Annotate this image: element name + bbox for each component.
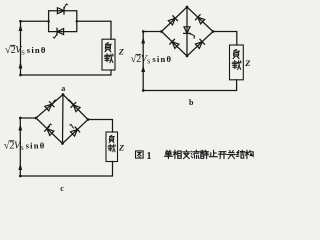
diode D1 (top-left) <box>168 16 177 25</box>
svg-text:Z: Z <box>118 143 124 153</box>
source arrow upper c <box>18 124 22 131</box>
svg-text:sinθ: sinθ <box>26 140 46 150</box>
junction dot b bridge right <box>212 30 215 33</box>
load box c <box>106 132 118 162</box>
load box a <box>102 39 115 70</box>
wire: bottom c <box>20 162 112 177</box>
wire: bridge center vertical c <box>62 95 65 144</box>
junction dot c bridge right <box>87 118 90 121</box>
thyristor V5 (bottom-left) <box>45 124 54 136</box>
diode D2 (top-right) <box>196 15 205 24</box>
thyristor V4 (top-right) <box>68 100 80 112</box>
wire: top lead a <box>21 20 49 22</box>
source arrow lower a <box>19 62 23 69</box>
junction dot b left <box>142 30 145 33</box>
load text 负 a <box>105 43 111 52</box>
source arrow upper a <box>19 24 23 31</box>
junction dot b bridge top <box>186 6 189 9</box>
junction dot b bottom-left <box>142 89 145 92</box>
load box b <box>230 45 244 80</box>
junction dot b bridge bottom <box>186 55 189 58</box>
bridge diamond b <box>162 7 214 56</box>
caption 单相交流静止开关结构 <box>164 150 253 158</box>
thyristor V (bridge center, pointing down) <box>184 27 195 38</box>
wire: bridge center vertical b <box>186 7 188 56</box>
svg-text:a: a <box>61 84 65 93</box>
wire: right lead c <box>88 120 113 133</box>
wire: left vertical c <box>19 118 21 176</box>
source label a <box>5 44 47 57</box>
wire: bottom a <box>21 70 112 75</box>
junction dot a box-right <box>76 20 79 23</box>
source arrow upper b <box>141 37 145 44</box>
junction dot a box-left <box>47 20 50 23</box>
svg-text:sinθ: sinθ <box>27 45 47 55</box>
wire: bottom b <box>143 80 236 91</box>
thyristor V3 (top-left) <box>45 100 56 111</box>
load text 负 c <box>109 135 114 143</box>
wire: right lead b <box>213 32 237 46</box>
svg-text:sinθ: sinθ <box>152 54 172 64</box>
svg-text:S: S <box>21 50 25 57</box>
source label c <box>4 139 46 152</box>
svg-text:Z: Z <box>118 47 124 57</box>
diode D4 (bottom-right) <box>195 39 204 48</box>
junction dot a bottom-left <box>19 74 22 77</box>
thyristor V1 (top, pointing right) <box>57 4 67 14</box>
svg-text:Z: Z <box>244 58 250 68</box>
junction dot b bridge left <box>160 30 163 33</box>
load text 载 b <box>232 61 241 70</box>
svg-text:S: S <box>147 59 151 66</box>
junction dot c bridge bottom <box>61 142 64 145</box>
junction dot c bottom-left <box>19 175 22 178</box>
svg-text:1: 1 <box>147 151 152 162</box>
thyristor V6 (bottom-right) <box>70 124 80 136</box>
wire: left lead c <box>20 117 36 119</box>
junction dot a top-left <box>19 20 22 23</box>
svg-text:b: b <box>189 98 194 107</box>
bridge diamond c <box>36 95 88 144</box>
svg-text:S: S <box>20 145 24 152</box>
source label b <box>131 53 173 66</box>
svg-text:c: c <box>60 184 64 193</box>
junction dot c top-left <box>19 117 22 120</box>
wire: left vertical (source branch a) <box>20 21 22 75</box>
source arrow lower c <box>18 163 22 170</box>
parallel branch rectangle a <box>49 11 77 32</box>
load text 负 b <box>233 49 239 58</box>
thyristor V2 (bottom, pointing left) <box>53 28 63 38</box>
background paper <box>0 0 258 195</box>
diode D3 (bottom-left) <box>170 39 179 48</box>
load text 载 a <box>104 54 113 63</box>
wire: right lead a <box>77 21 111 39</box>
junction dot c bridge left <box>35 117 38 120</box>
caption 图1 <box>136 151 152 162</box>
wire: left lead b <box>143 31 161 33</box>
junction dot c bridge top <box>62 93 65 96</box>
source arrow lower b <box>141 65 145 72</box>
load text 载 c <box>108 144 115 151</box>
wire: left vertical b <box>142 32 144 91</box>
